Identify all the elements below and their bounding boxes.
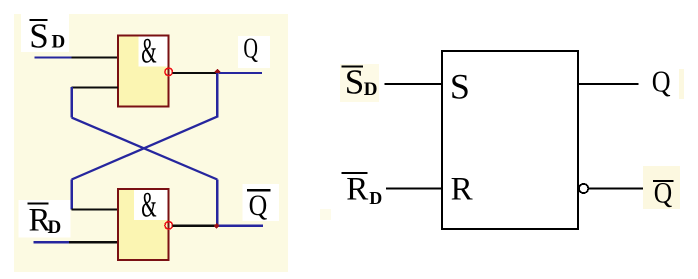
and-gate U1 (118, 31, 169, 106)
svg-text:Q: Q (249, 189, 268, 222)
highlight strip right of Q label (679, 69, 684, 99)
svg-text:D: D (52, 32, 66, 53)
svg-text:Q: Q (243, 33, 258, 64)
left schematic panel background (14, 14, 288, 272)
svg-text:D: D (364, 79, 378, 100)
latch box U3 (442, 51, 578, 229)
svg-text:S: S (450, 67, 470, 107)
wire U1 output to node Q (173, 72, 262, 74)
label S_D (right symbol) (342, 62, 378, 101)
svg-text:&: & (141, 185, 157, 225)
highlight patch behind S_D symbol label (340, 64, 379, 102)
wire Q output (right symbol) (578, 83, 639, 85)
label R_D (right symbol) (341, 171, 382, 207)
junction node Qbar (214, 223, 220, 229)
bubble on U1 output (165, 68, 173, 76)
highlight speck left of R_D symbol label (320, 209, 331, 220)
svg-text:S: S (29, 17, 48, 56)
label Qbar (right symbol) (653, 177, 674, 210)
wire R_D to R pin (386, 187, 442, 189)
and-gate U2 (118, 185, 169, 260)
svg-text:D: D (369, 188, 382, 208)
label Qbar (left panel) (243, 184, 280, 222)
label Q (left panel) (238, 33, 270, 68)
svg-text:D: D (48, 217, 62, 238)
wire S_D to U1 input 1 (34, 56, 118, 58)
label S_D (input, left panel) (21, 14, 69, 56)
svg-text:R: R (451, 171, 473, 207)
wire U2 output to node Qbar (173, 225, 263, 227)
wire R_D to U2 input 2 (34, 241, 118, 243)
svg-text:&: & (141, 31, 157, 71)
feedback wire from node Qbar to U1 input 2 (71, 87, 219, 226)
wire S_D to S pin (385, 83, 443, 85)
wire Qbar output (right symbol) (589, 187, 645, 189)
svg-text:Q: Q (654, 177, 672, 210)
svg-text:S: S (345, 62, 364, 101)
svg-text:R: R (346, 171, 368, 207)
feedback wire from node Q to U2 input 1 (71, 73, 219, 210)
wire U1 second input (72, 86, 118, 88)
svg-text:Q: Q (652, 65, 671, 100)
bubble on U2 output (165, 222, 173, 230)
highlight patch behind Qbar label (643, 166, 680, 209)
label R_D (input, left panel) (19, 200, 71, 239)
junction node Q (214, 69, 220, 75)
bubble on Qbar output (579, 184, 588, 193)
wire U2 first input (72, 208, 118, 210)
